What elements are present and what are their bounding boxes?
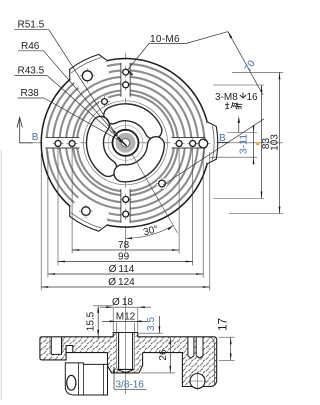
section web notch [66, 337, 73, 346]
outer circle D124 [41, 59, 210, 228]
dim M12 [102, 312, 147, 323]
svg-text:78: 78 [118, 240, 130, 251]
frame edge [0, 150, 2, 400]
tab right (0 deg) [207, 122, 218, 164]
svg-text:R51.5: R51.5 [18, 20, 45, 31]
section boss outline [108, 353, 143, 373]
hub boss circles [108, 125, 143, 160]
leader R43.5 [15, 66, 120, 140]
section web right hatched [143, 337, 183, 353]
dim 3-11 [237, 126, 254, 165]
orange grip dot [256, 142, 259, 145]
svg-text:3-11: 3-11 [237, 134, 249, 154]
hole M6 left inner [67, 138, 78, 149]
svg-text:83: 83 [261, 138, 272, 150]
wire 30deg radial [133, 155, 178, 233]
section lug left (3/8-16 tab) [65, 363, 107, 395]
dim 70 diagonal [186, 32, 263, 95]
section outline top face [40, 333, 217, 387]
svg-text:B: B [32, 132, 39, 143]
dim 83 [261, 85, 272, 199]
wire diagonal leader lower [163, 119, 264, 185]
dim 26 [141, 337, 175, 373]
slot kidney C (bottom) [114, 137, 164, 182]
section lug oval hole [67, 375, 76, 390]
tab lower-left (243 deg) [70, 206, 108, 232]
dim &#216;&#8201;124 [41, 286, 210, 288]
section boss hatched [108, 333, 143, 373]
wire ext lines bottom [41, 149, 210, 291]
view arrow B [17, 117, 33, 143]
svg-text:26: 26 [158, 349, 169, 361]
dim 30deg arc [126, 226, 174, 239]
section lug hole circle [190, 374, 205, 389]
dim D18 [100, 297, 151, 308]
label junbu (Chinese: evenly spaced) [225, 102, 242, 109]
hole M8 lower-left [79, 204, 93, 218]
section M6 slot left [51, 337, 61, 355]
groove arcs (gray concentric grooves R38..R51.5) [47, 64, 205, 222]
hole M6 top outer [120, 67, 131, 78]
svg-text:Ø 114: Ø 114 [109, 264, 135, 275]
hole M6 right inner [174, 138, 185, 149]
dim 17 [217, 318, 234, 360]
hole M8 right [196, 137, 210, 151]
svg-text:16: 16 [247, 92, 259, 103]
section left rim hatched [40, 337, 66, 360]
wire channel gaps [43, 60, 209, 226]
tab upper-left (117 deg) [70, 54, 108, 80]
dim 78 [72, 249, 179, 251]
wire vertical centerline [125, 53, 127, 240]
svg-text:R46: R46 [21, 41, 40, 52]
leader R38 [18, 88, 122, 142]
svg-text:3-M8: 3-M8 [215, 92, 238, 103]
hole small lower [156, 178, 168, 190]
svg-text:10-M6: 10-M6 [150, 34, 180, 45]
dim 103 [270, 72, 281, 213]
char bu [235, 103, 242, 110]
hub thread ring M12 [118, 136, 132, 150]
wire channel edges [46, 63, 206, 223]
svg-text:R43.5: R43.5 [18, 66, 45, 77]
hole M6 left outer [52, 138, 63, 149]
svg-text:R38: R38 [21, 88, 40, 99]
svg-text:Ø 124: Ø 124 [108, 277, 135, 288]
wire section axis [125, 296, 127, 394]
leader R51.5 [15, 20, 116, 134]
wire ext lines section [113, 308, 138, 335]
hole M6 bottom outer [120, 209, 131, 220]
section M6 and M8 holes right block [188, 337, 203, 358]
svg-text:17: 17 [217, 318, 229, 331]
leader 10-M6 [128, 34, 186, 76]
section web left hatched [73, 337, 108, 353]
section rim inner edge right [210, 337, 215, 385]
slot kidney A (top) [104, 104, 162, 139]
wire ext lines right [210, 72, 283, 213]
wire horizontal centerline [29, 142, 283, 144]
dim &#216;&#8201;114 [48, 273, 203, 275]
node bolt-circle thin ring [84, 101, 168, 185]
hole small upper [99, 96, 110, 107]
dim 99 [58, 261, 193, 263]
dim 3.5 [139, 316, 163, 333]
leader junbu arrow [238, 116, 240, 133]
svg-text:Ø 18: Ø 18 [112, 297, 133, 308]
leader R46 [18, 41, 118, 136]
svg-text:15.5: 15.5 [86, 311, 97, 331]
section right block hatched [182, 337, 216, 389]
hole M6 right outer [187, 138, 198, 149]
label 3-M8 v16 [215, 92, 258, 103]
slot kidney B (left) [86, 116, 116, 176]
svg-text:3.5: 3.5 [146, 317, 157, 331]
svg-text:99: 99 [118, 252, 130, 263]
section M12 hole [117, 333, 135, 373]
hole M8 upper-left [80, 68, 95, 83]
hole M6 top inner [120, 79, 131, 90]
leader 3/8-16 [113, 366, 147, 391]
leader bold end stroke [119, 138, 127, 146]
svg-text:3/8-16: 3/8-16 [116, 380, 145, 391]
hole M6 bottom inner [120, 194, 131, 205]
dim 15.5 [86, 306, 113, 339]
